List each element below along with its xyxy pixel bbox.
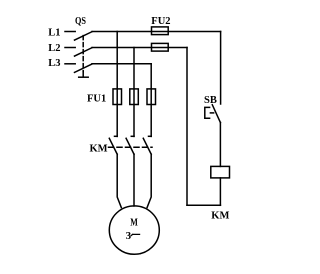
svg-text:KM: KM (90, 144, 108, 155)
svg-text:L1: L1 (48, 28, 60, 39)
svg-text:L3: L3 (48, 58, 60, 69)
svg-text:M: M (130, 216, 138, 228)
svg-text:KM: KM (211, 211, 229, 222)
svg-text:L2: L2 (48, 43, 60, 54)
svg-text:QS: QS (75, 16, 86, 27)
svg-text:3: 3 (126, 230, 132, 242)
svg-text:FU2: FU2 (151, 16, 170, 27)
svg-text:SB: SB (204, 95, 217, 106)
svg-text:FU1: FU1 (87, 93, 106, 104)
